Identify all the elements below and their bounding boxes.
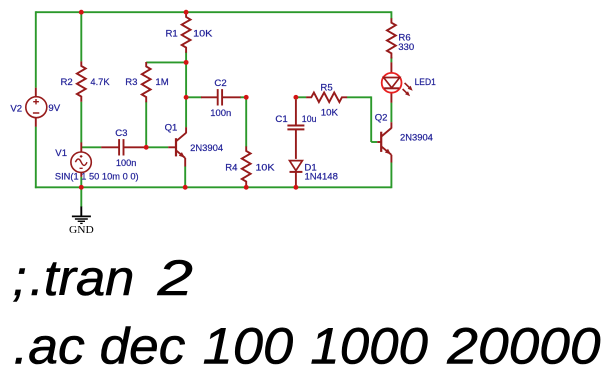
svg-text:20000: 20000 [446, 317, 600, 374]
svg-text:V1: V1 [55, 148, 67, 159]
svg-text:R3: R3 [125, 77, 137, 88]
svg-text:330: 330 [398, 42, 414, 53]
svg-text:9V: 9V [48, 103, 60, 114]
svg-text:2: 2 [156, 249, 193, 306]
svg-text:R5: R5 [320, 83, 332, 94]
svg-text:V2: V2 [10, 103, 22, 114]
svg-text:2N3904: 2N3904 [190, 143, 224, 154]
svg-text:C3: C3 [115, 128, 127, 139]
svg-text:1N4148: 1N4148 [305, 172, 338, 183]
svg-text:R1: R1 [166, 28, 178, 39]
svg-text:100: 100 [203, 317, 293, 374]
svg-text:R4: R4 [225, 163, 238, 174]
svg-text:100n: 100n [116, 158, 136, 169]
svg-text:10K: 10K [321, 107, 339, 118]
svg-text:;: ; [13, 249, 27, 306]
svg-text:.ac: .ac [13, 317, 84, 374]
svg-text:1M: 1M [155, 77, 168, 88]
svg-text:LED1: LED1 [415, 77, 436, 88]
svg-text:Q1: Q1 [165, 122, 178, 133]
svg-text:Q2: Q2 [375, 113, 388, 124]
svg-text:10K: 10K [256, 163, 276, 174]
svg-text:dec: dec [100, 317, 186, 374]
svg-text:4.7K: 4.7K [90, 77, 110, 88]
svg-text:10K: 10K [193, 28, 213, 39]
svg-text:C1: C1 [275, 114, 287, 125]
svg-text:R2: R2 [61, 77, 73, 88]
svg-text:10u: 10u [302, 114, 317, 125]
svg-text:SIN(1 1 50 10m 0 0): SIN(1 1 50 10m 0 0) [55, 171, 139, 182]
svg-text:C2: C2 [214, 78, 226, 89]
svg-text:.: . [30, 249, 44, 306]
svg-text:tran: tran [44, 249, 134, 306]
svg-text:1000: 1000 [310, 317, 428, 374]
svg-text:100n: 100n [210, 108, 231, 119]
svg-text:2N3904: 2N3904 [400, 132, 434, 143]
svg-text:GND: GND [69, 224, 94, 236]
